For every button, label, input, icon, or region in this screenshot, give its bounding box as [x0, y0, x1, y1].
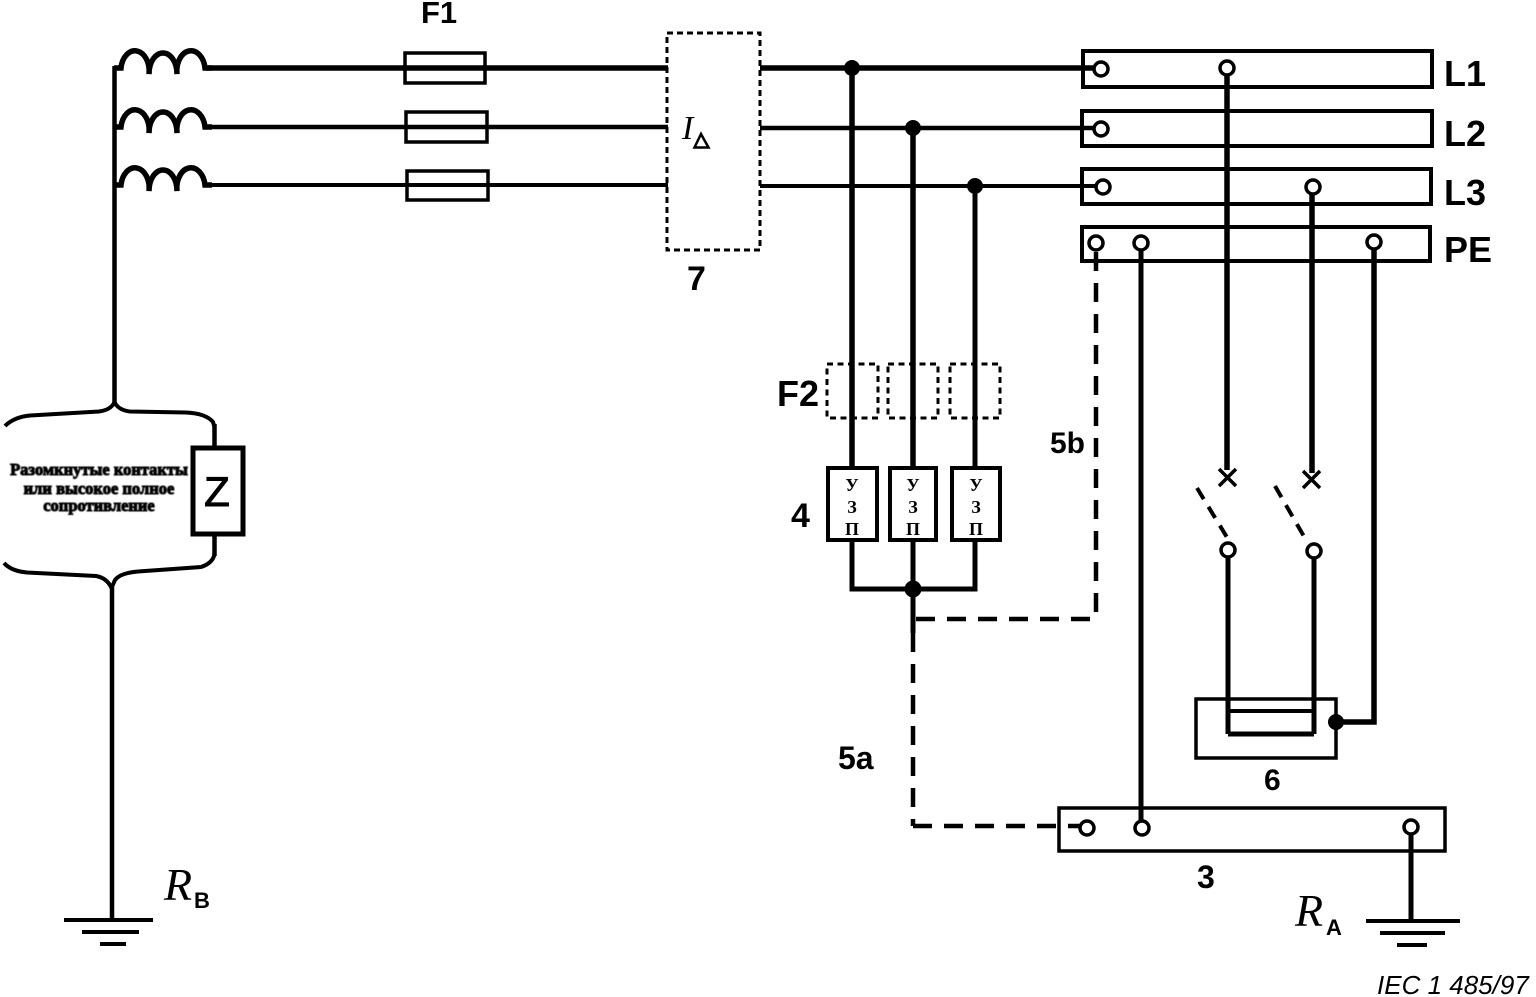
svg-text:П: П	[906, 519, 920, 539]
svg-text:П: П	[845, 519, 859, 539]
terminal circle bar3 left	[1080, 821, 1094, 835]
svg-text:F2: F2	[777, 373, 819, 414]
wire left vertical bus from windings down to fork	[112, 66, 117, 404]
fuse F2c (dashed optional)	[950, 364, 1000, 418]
svg-text:5b: 5b	[1050, 427, 1085, 460]
box 6 equipment frame	[1196, 699, 1336, 758]
svg-text:R: R	[163, 859, 192, 910]
ground RB	[64, 918, 153, 922]
wire drop from L3 junction to SPD 3	[973, 186, 978, 468]
bar 3 (earthing terminal bar)	[1059, 808, 1445, 851]
wire row L2 from fuse to box 7	[487, 125, 668, 130]
label I-delta inside box 7	[681, 110, 709, 148]
terminal circle PE 3	[1367, 235, 1381, 249]
wire row L3 from winding to fuse F1c	[206, 183, 408, 187]
terminal circle bar3 right	[1404, 820, 1418, 834]
svg-text:F1: F1	[421, 0, 457, 30]
wire row L1 from fuse to box 7	[485, 65, 668, 71]
terminal circle bar3 mid	[1135, 821, 1149, 835]
wire SPD3 bottom to common junction	[913, 540, 975, 589]
label У З П in SPD 3	[969, 475, 983, 539]
svg-text:L1: L1	[1444, 53, 1486, 94]
svg-text:З: З	[847, 497, 857, 517]
impedance Z box	[193, 448, 243, 534]
switch 1 blade (dashed open)	[1197, 488, 1228, 539]
fuse F1b	[406, 112, 487, 142]
wire row L1 from box 7 to busbar L1	[760, 65, 1096, 71]
terminal circle L3 left	[1096, 180, 1110, 194]
junction dot on row L2	[905, 120, 921, 136]
junction dot on row L1	[844, 60, 860, 76]
svg-text:IEC 1 485/97: IEC 1 485/97	[1377, 970, 1530, 997]
label RB	[163, 859, 210, 913]
SPD box 3 (УЗП)	[952, 468, 1000, 540]
wire row L3 from box 7 to busbar L3	[760, 184, 1098, 188]
ground RA	[1366, 919, 1460, 923]
terminal circle L3 right	[1306, 180, 1320, 194]
wire SPD1 bottom to common junction	[852, 540, 913, 589]
terminal circle PE 2	[1134, 236, 1148, 250]
svg-text:5a: 5a	[838, 740, 874, 776]
svg-text:6: 6	[1264, 764, 1281, 797]
svg-text:L2: L2	[1444, 113, 1486, 154]
svg-text:Z: Z	[204, 468, 230, 515]
RCD box 7 (dashed, residual current device)	[667, 33, 760, 250]
wire switch 2 to box 6	[1312, 558, 1317, 734]
junction dot SPD common point	[905, 581, 922, 598]
svg-text:3: 3	[1197, 859, 1215, 895]
svg-text:4: 4	[791, 497, 810, 535]
SPD box 1 (УЗП)	[828, 468, 877, 540]
wire row L1 from winding to fuse F1a	[206, 65, 406, 71]
junction dot on row L3	[967, 178, 983, 194]
wire switch 1 to box 6	[1226, 557, 1231, 734]
junction dot on box 6 right edge	[1328, 714, 1344, 730]
wire row L3 from fuse to box 7	[488, 183, 668, 187]
wire row L2 from box 7 to busbar L2	[760, 126, 1096, 131]
svg-text:B: B	[194, 888, 210, 913]
dashed wire 5b horizontal from SPD junction to PE drop	[916, 617, 1098, 622]
wire drop from L2 junction to SPD 2	[910, 128, 916, 468]
wire bar3 to RA ground	[1409, 834, 1414, 921]
svg-text:L3: L3	[1444, 172, 1486, 213]
switch 2 blade (dashed open)	[1275, 486, 1306, 540]
terminal circle PE 1	[1089, 236, 1103, 250]
SPD box 2 (УЗП)	[890, 468, 936, 540]
switch 2 hinge circle	[1307, 544, 1321, 558]
busbar L3	[1082, 169, 1431, 204]
busbar PE	[1082, 227, 1430, 261]
label У З П in SPD 1	[845, 475, 859, 539]
wire from L1 terminal down to switch 1	[1224, 75, 1230, 470]
dashed wire 5b vertical up to PE bar	[1094, 252, 1099, 621]
svg-text:I: I	[681, 110, 695, 147]
wire SPD2 bottom through junction	[911, 540, 916, 633]
dashed wire 5a horizontal to bar 3	[913, 824, 1080, 829]
wire row L2 from winding to fuse F1b	[206, 125, 407, 130]
wire stub below impedance Z	[212, 533, 217, 556]
lower fork brace (converging to earth lead)	[112, 554, 215, 588]
svg-text:З: З	[971, 497, 981, 517]
dashed wire 5a vertical from SPD junction down	[911, 633, 916, 826]
wire stub to impedance Z	[212, 424, 217, 449]
wire earth lead to RB ground	[110, 587, 115, 920]
switch 1 hinge circle	[1221, 543, 1235, 557]
terminal circle L1 left	[1094, 62, 1108, 76]
svg-text:сопротивление: сопротивление	[43, 496, 155, 515]
wire PE drop to box 6	[1336, 249, 1374, 722]
label У З П in SPD 2	[906, 475, 920, 539]
svg-text:З: З	[908, 497, 918, 517]
link bar inside box 6 lower	[1228, 732, 1314, 737]
busbar L1	[1083, 51, 1432, 87]
svg-text:PE: PE	[1444, 229, 1492, 270]
busbar L2	[1082, 111, 1432, 146]
svg-text:У: У	[969, 475, 982, 495]
fuse F2b (dashed optional)	[888, 364, 938, 418]
svg-text:A: A	[1326, 915, 1342, 940]
svg-text:П: П	[969, 519, 983, 539]
winding W3 (phase 3 source coil)	[114, 168, 212, 191]
switch 2 fixed contact X	[1303, 471, 1320, 488]
terminal circle L1 mid	[1220, 61, 1234, 75]
svg-text:У: У	[845, 475, 858, 495]
winding W2 (phase 2 source coil)	[114, 110, 212, 133]
svg-text:R: R	[1294, 885, 1323, 936]
switch 1 fixed contact X	[1219, 469, 1236, 486]
wire PE to bar 3	[1139, 250, 1144, 821]
upper fork brace (open-contact branch)	[115, 402, 215, 427]
link bar inside box 6 upper	[1228, 709, 1314, 713]
note text (open contacts or high impedance)	[10, 460, 188, 515]
terminal circle L2 left	[1094, 122, 1108, 136]
svg-text:У: У	[906, 475, 919, 495]
fuse F2a (dashed optional)	[827, 364, 878, 418]
svg-text:7: 7	[687, 260, 706, 298]
fuse F1c	[407, 171, 488, 200]
fuse F1a	[405, 53, 485, 83]
winding W1 (phase 1 source coil)	[114, 51, 212, 74]
label RA	[1294, 885, 1342, 940]
wire from L3 terminal down to switch 2	[1309, 194, 1315, 473]
svg-text:Разомкнутые контакты: Разомкнутые контакты	[10, 460, 188, 479]
wire drop from L1 junction to SPD 1	[849, 68, 855, 468]
